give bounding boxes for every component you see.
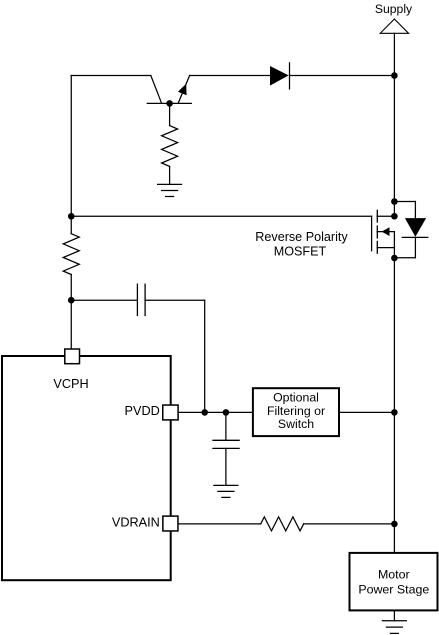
svg-text:Reverse Polarity: Reverse Polarity [255,230,348,244]
svg-text:Power Stage: Power Stage [358,582,429,596]
mosfet M1 [372,210,395,253]
ground G2 [214,485,238,497]
wire gate horizontal [71,215,371,217]
pin PVDD [163,405,178,420]
ground G1 [158,184,182,196]
node rail VDRAIN junction [391,521,398,528]
node PVDD left junction [201,409,208,416]
svg-text:Optional: Optional [273,391,319,405]
wire base to resistor [169,103,171,125]
wire motor box to ground [393,610,395,620]
svg-text:Filtering or: Filtering or [267,404,325,418]
svg-text:VDRAIN: VDRAIN [112,515,160,529]
IC box [2,356,171,580]
wire diode to supply rail [290,75,395,77]
wire rail upper segment [393,76,395,217]
node base junction [166,100,173,107]
wire resistor to rail [304,523,395,525]
node VCPH junction [68,297,75,304]
node source tap [391,255,398,262]
svg-text:Motor: Motor [378,567,410,581]
wire VDRAIN to resistor [179,523,261,525]
node PVDD right junction [223,409,230,416]
node gate junction [68,213,75,220]
wire capacitor to PVDD node [204,300,206,412]
capacitor C1 [71,284,204,315]
node drain tap [391,213,398,220]
svg-text:MOSFET: MOSFET [274,245,327,259]
wire emitter to diode [190,75,270,77]
wire top-left horizontal [71,75,151,77]
transistor Q1 [147,76,191,104]
diode D2 body diode [394,202,427,258]
capacitor C2 [213,412,239,485]
wire VCPH node to pin [70,300,72,349]
node rail PVDD junction [391,409,398,416]
node diode anode tap [391,198,398,205]
filter box Optional Filtering or Switch [253,388,339,436]
ground G3 [382,621,406,634]
resistor R2 [63,216,79,300]
resistor R1 [162,126,178,167]
wire resistor to ground [169,166,171,184]
wire rail lower segment [393,232,395,553]
pin VCPH [65,349,80,364]
supply symbol [380,19,408,75]
svg-text:PVDD: PVDD [125,404,160,418]
label Reverse Polarity MOSFET [255,230,348,259]
node supply junction [391,72,398,79]
svg-text:Supply: Supply [375,2,413,16]
svg-text:VCPH: VCPH [53,377,88,391]
pin VDRAIN [163,516,178,531]
diode D1 [270,63,290,89]
resistor R3 [261,517,304,531]
svg-text:Switch: Switch [278,417,314,431]
wire filter box to rail [339,411,394,413]
wire PVDD to filter box [179,411,253,413]
motor box Motor Power Stage [350,553,438,611]
wire left vertical [70,76,72,217]
